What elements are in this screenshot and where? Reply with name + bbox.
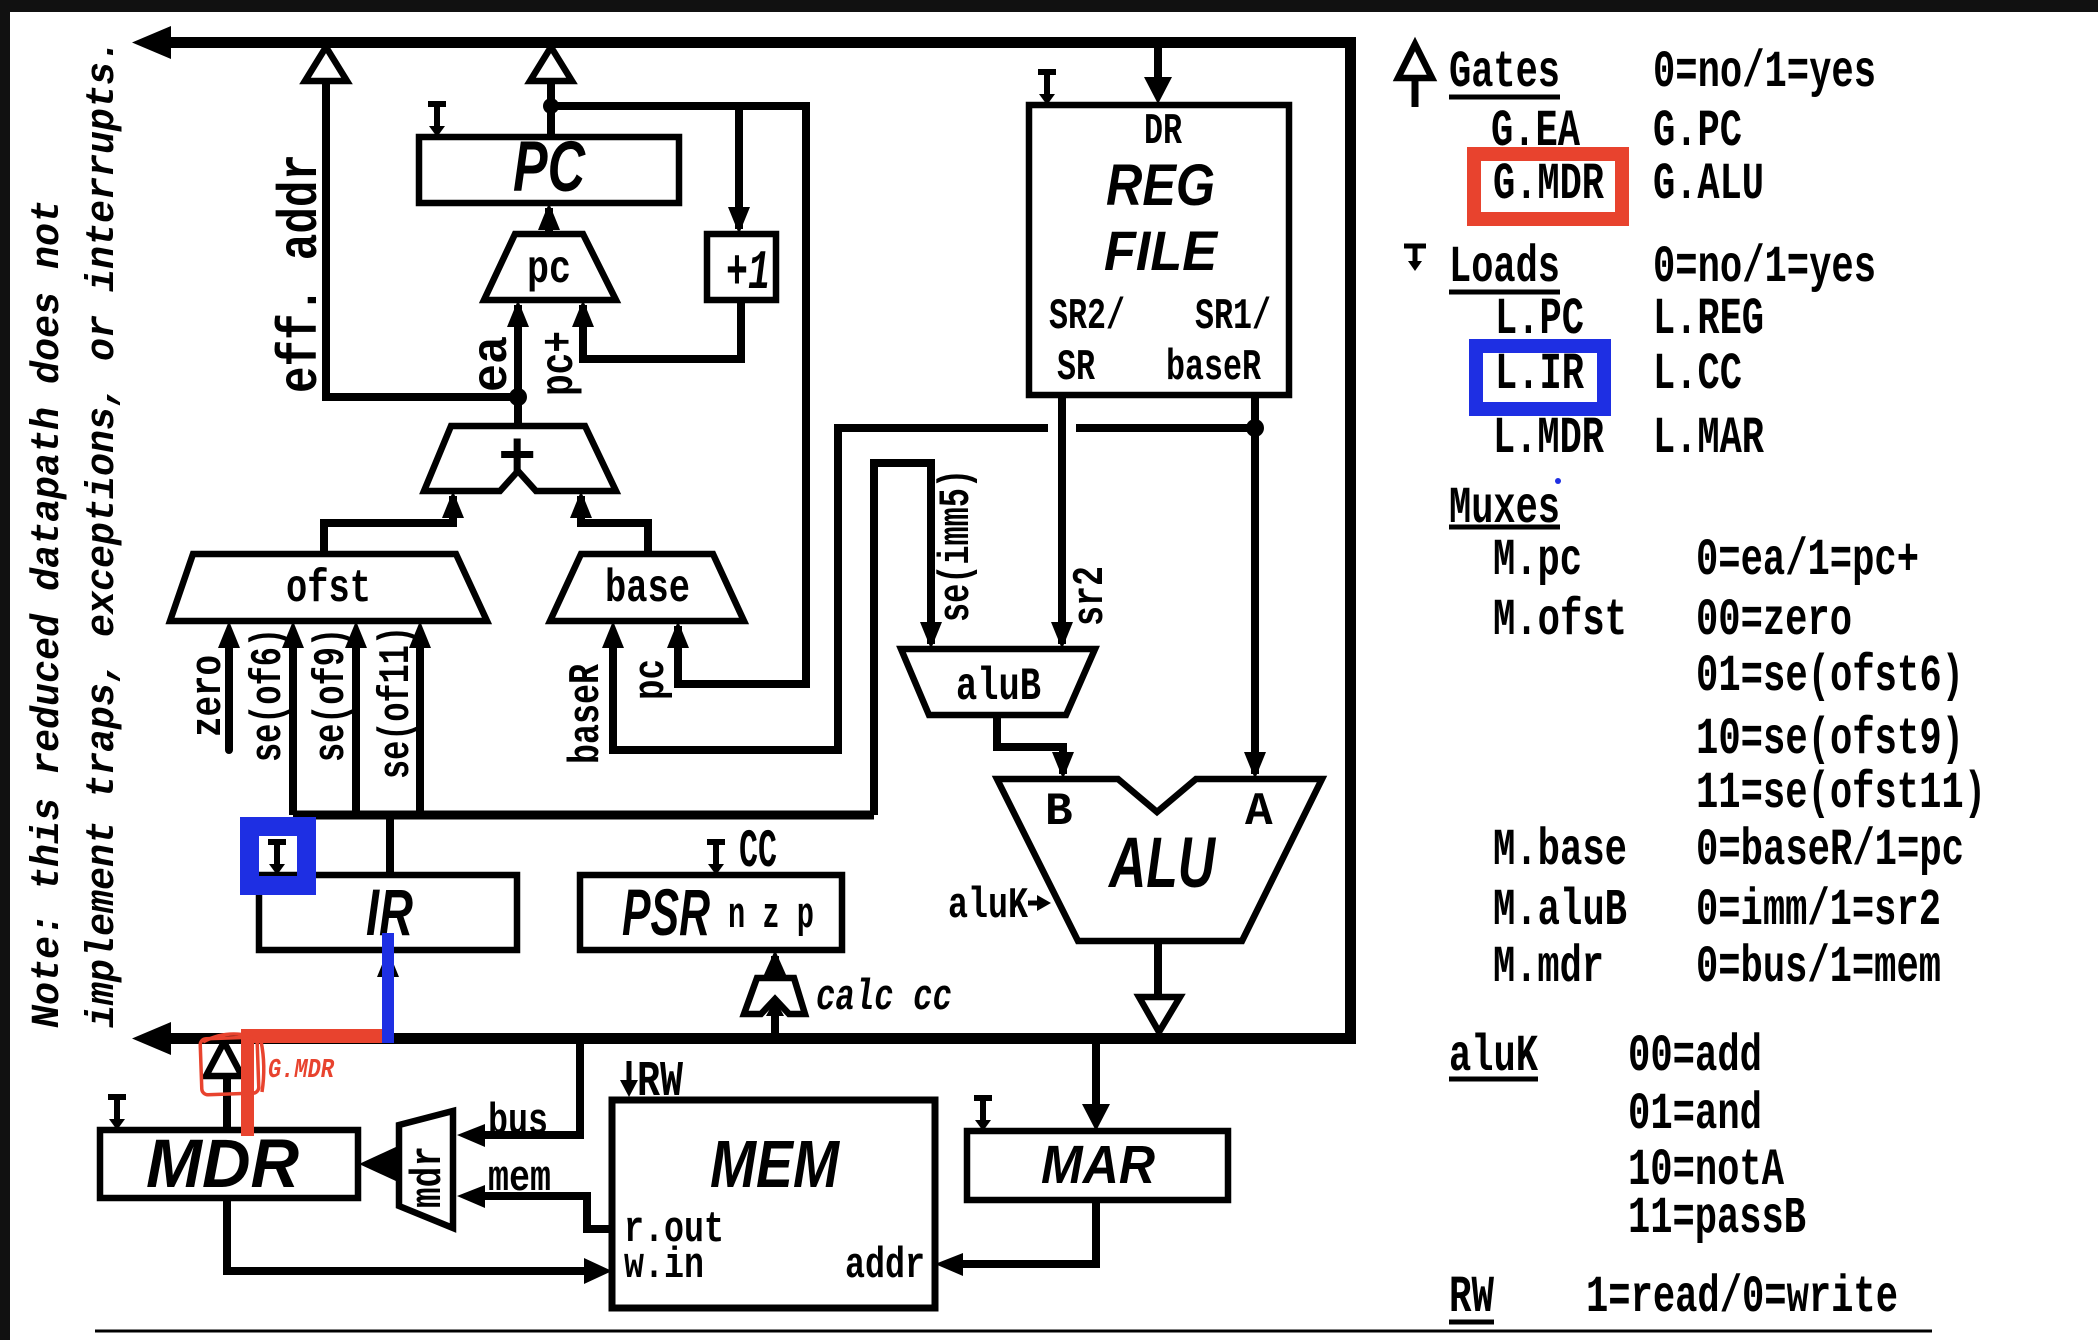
gate G.ALU triangle — [1139, 997, 1180, 1032]
svg-text:SR2/: SR2/ — [1049, 292, 1125, 342]
wire se(of6) input — [282, 621, 304, 815]
svg-text:ALU: ALU — [1108, 824, 1217, 903]
legend M.pc — [1493, 531, 1919, 590]
svg-text:1=read/0=write: 1=read/0=write — [1586, 1268, 1898, 1327]
svg-text:L.IR: L.IR — [1495, 345, 1585, 404]
svg-text:M.base: M.base — [1493, 821, 1627, 880]
load L.MAR symbol — [974, 1098, 992, 1131]
wire bus to MAR — [1082, 1044, 1110, 1131]
svg-text:G.MDR: G.MDR — [268, 1056, 335, 1086]
wire fan to IR — [386, 815, 394, 875]
svg-text:RW: RW — [1449, 1268, 1495, 1327]
bottom rule line — [95, 1330, 1932, 1333]
svg-text:se(of6): se(of6) — [244, 628, 294, 762]
svg-text:01=and: 01=and — [1628, 1085, 1762, 1144]
wire MAR to MEM addr — [935, 1200, 1096, 1276]
mux ofst — [170, 554, 487, 621]
svg-text:G.PC: G.PC — [1653, 102, 1742, 161]
svg-text:pc+: pc+ — [534, 331, 586, 396]
legend L.PC L.REG — [1495, 290, 1764, 349]
stray blue dot — [1555, 478, 1561, 484]
svg-text:M.pc: M.pc — [1493, 531, 1582, 590]
wire ALU out to bus — [1154, 941, 1162, 997]
svg-text:01=se(ofst6): 01=se(ofst6) — [1696, 647, 1964, 706]
highlight blue box L.IR — [1476, 346, 1604, 409]
legend G.MDR G.ALU — [1493, 155, 1764, 214]
svg-text:aluB: aluB — [956, 661, 1041, 713]
svg-text:REG: REG — [1106, 153, 1215, 218]
highlight blue square L.IR — [250, 827, 307, 886]
svg-text:G.MDR: G.MDR — [1493, 155, 1605, 214]
svg-text:10=se(ofst9): 10=se(ofst9) — [1696, 710, 1964, 769]
svg-text:pc: pc — [527, 244, 571, 296]
svg-text:addr: addr — [845, 1241, 925, 1291]
wire aluB out to ALU B — [997, 715, 1074, 779]
wire se(of11) input — [409, 621, 431, 815]
legend M.aluB — [1493, 881, 1941, 940]
svg-text:L.MDR: L.MDR — [1493, 409, 1605, 468]
svg-text:calc cc: calc cc — [816, 973, 952, 1023]
wire zero input — [218, 621, 240, 750]
wire PC top to bus gate — [547, 81, 555, 137]
svg-text:0=no/1=yes: 0=no/1=yes — [1653, 238, 1876, 297]
svg-text:sr2: sr2 — [1066, 566, 1116, 626]
wire sr2 — [1051, 395, 1073, 649]
svg-text:SR1/: SR1/ — [1195, 292, 1271, 342]
svg-text:PSR: PSR — [622, 875, 710, 949]
svg-text:M.aluB: M.aluB — [1493, 881, 1627, 940]
svg-text:implement traps, exceptions, o: implement traps, exceptions, or interrup… — [81, 39, 126, 1028]
box +1 — [707, 234, 776, 305]
svg-text:0=bus/1=mem: 0=bus/1=mem — [1696, 938, 1941, 997]
mux mdr — [399, 1111, 454, 1228]
svg-text:zero: zero — [184, 655, 234, 737]
highlight red sketch box around G.MDR gate — [200, 1034, 264, 1095]
svg-text:11=passB: 11=passB — [1628, 1189, 1806, 1248]
load L.CC symbol — [707, 842, 725, 875]
svg-text:n z p: n z p — [728, 891, 814, 941]
bus (top, right, bottom) — [132, 26, 1351, 1055]
legend gate arrow — [1398, 44, 1432, 107]
memory MEM — [612, 1100, 935, 1308]
load L.MDR symbol — [108, 1097, 126, 1130]
register PC — [419, 128, 679, 207]
wire IR fan line — [293, 811, 874, 820]
svg-text:PC: PC — [513, 128, 586, 207]
load L.IR symbol — [268, 842, 286, 875]
legend aluK header — [1449, 1027, 1762, 1086]
gate G.EA triangle — [305, 47, 347, 81]
svg-text:+: + — [498, 424, 536, 496]
node junction SR1/baseR — [1246, 419, 1264, 437]
register MDR — [100, 1125, 358, 1202]
svg-text:MDR: MDR — [146, 1125, 299, 1202]
highlight red wire on bus — [241, 1029, 382, 1043]
svg-text:bus: bus — [488, 1097, 548, 1147]
svg-text:L.CC: L.CC — [1653, 345, 1742, 404]
mux aluB — [901, 649, 1095, 715]
svg-text:ea: ea — [465, 336, 522, 392]
svg-text:00=zero: 00=zero — [1696, 591, 1852, 650]
gate G.PC triangle — [530, 47, 572, 81]
legend L.MDR L.MAR — [1493, 409, 1765, 468]
svg-text:FILE: FILE — [1104, 219, 1219, 282]
svg-text:base: base — [605, 563, 690, 615]
svg-text:Gates: Gates — [1449, 43, 1560, 102]
svg-text:L.REG: L.REG — [1653, 290, 1764, 349]
svg-text:baseR: baseR — [562, 664, 612, 764]
load L.REG symbol — [1038, 72, 1056, 105]
label aluK — [948, 881, 1051, 931]
svg-text:eff. addr: eff. addr — [269, 154, 333, 393]
svg-text:pc: pc — [627, 659, 677, 700]
svg-text:mdr: mdr — [404, 1146, 454, 1208]
svg-text:0=ea/1=pc+: 0=ea/1=pc+ — [1696, 531, 1919, 590]
mux pc — [484, 234, 616, 300]
svg-text:se(of9): se(of9) — [307, 628, 357, 762]
legend M.ofst — [1493, 591, 1852, 650]
wire MDR to MEM w.in — [227, 1198, 612, 1284]
wire SR1 to ALU A — [1244, 395, 1266, 779]
wire pc+ from +1 — [572, 300, 741, 359]
register MAR — [967, 1131, 1228, 1200]
alu ALU — [997, 779, 1322, 941]
svg-text:SR: SR — [1057, 343, 1095, 393]
svg-text:Loads: Loads — [1449, 238, 1560, 297]
legend M.base — [1493, 821, 1964, 880]
highlight blue wire bus to IR — [382, 933, 394, 1043]
register PSR — [580, 875, 842, 950]
note rotated text — [26, 39, 126, 1028]
frame left bar — [0, 0, 10, 1340]
svg-text:B: B — [1045, 786, 1073, 838]
label RW load — [620, 1054, 683, 1111]
svg-text:RW: RW — [637, 1054, 683, 1111]
legend Gates header — [1449, 43, 1876, 102]
svg-text:w.in: w.in — [624, 1241, 704, 1291]
legend G.EA G.PC — [1491, 102, 1742, 161]
svg-text:se(of11): se(of11) — [372, 626, 422, 779]
svg-text:0=baseR/1=pc: 0=baseR/1=pc — [1696, 821, 1964, 880]
svg-text:MEM: MEM — [710, 1127, 840, 1202]
wire pc-out to +1 and base — [551, 106, 806, 684]
load L.PC symbol — [428, 104, 446, 137]
svg-text:00=add: 00=add — [1628, 1027, 1762, 1086]
legend load arrow — [1404, 246, 1426, 271]
legend M.mdr — [1493, 938, 1941, 997]
svg-text:se(imm5): se(imm5) — [932, 469, 982, 622]
wire adder-out / ea — [507, 300, 529, 426]
svg-text:mem: mem — [488, 1154, 551, 1204]
svg-text:Note: this reduced datapath do: Note: this reduced datapath does not — [26, 200, 71, 1028]
wire ofst to adder — [324, 491, 464, 554]
svg-text:A: A — [1245, 786, 1273, 838]
wire mem to mdr mux — [457, 1185, 612, 1229]
svg-text:L.MAR: L.MAR — [1653, 409, 1765, 468]
node junction ea — [509, 388, 527, 406]
svg-text:G.ALU: G.ALU — [1653, 155, 1764, 214]
svg-text:DR: DR — [1144, 107, 1182, 157]
highlight red wire to MDR — [241, 1029, 254, 1136]
mux-output arrow into PC — [538, 203, 560, 234]
gate G.MDR triangle — [206, 1042, 242, 1130]
mux calc cc — [744, 950, 805, 1033]
svg-text:0=no/1=yes: 0=no/1=yes — [1653, 43, 1876, 102]
frame top bar — [0, 0, 2098, 12]
wire bus to mdr mux — [457, 1044, 580, 1147]
wire bus to IR — [377, 950, 399, 1033]
svg-text:baseR: baseR — [1166, 343, 1261, 393]
wire base to adder — [570, 491, 648, 554]
legend RW — [1449, 1268, 1898, 1327]
register IR — [259, 875, 517, 950]
svg-text:MAR: MAR — [1041, 1135, 1155, 1195]
svg-text:11=se(ofst11): 11=se(ofst11) — [1696, 764, 1986, 823]
wire se(imm5) — [874, 463, 942, 815]
legend Loads header — [1449, 238, 1876, 297]
legend Muxes header — [1449, 479, 1560, 538]
svg-text:M.mdr: M.mdr — [1493, 938, 1604, 997]
svg-text:ofst: ofst — [286, 563, 371, 615]
svg-text:aluK: aluK — [948, 881, 1028, 931]
wire se(of9) input — [345, 621, 367, 815]
svg-text:M.ofst: M.ofst — [1493, 591, 1627, 650]
node junction pc-out — [543, 98, 559, 114]
svg-text:CC: CC — [739, 822, 777, 883]
wire eff.addr — [326, 81, 518, 397]
legend L.IR L.CC — [1495, 345, 1742, 404]
register REG FILE — [1029, 105, 1289, 395]
mux base — [550, 554, 744, 621]
svg-text:+1: +1 — [726, 241, 770, 305]
wire baseR from IR to base mux and SR1 net — [602, 428, 1255, 750]
wire mdr mux to MDR — [359, 1146, 398, 1182]
svg-text:0=imm/1=sr2: 0=imm/1=sr2 — [1696, 881, 1941, 940]
highlight red box G.MDR — [1474, 154, 1622, 219]
adder + — [424, 424, 616, 496]
wire bus to REG FILE DR — [1144, 47, 1172, 104]
